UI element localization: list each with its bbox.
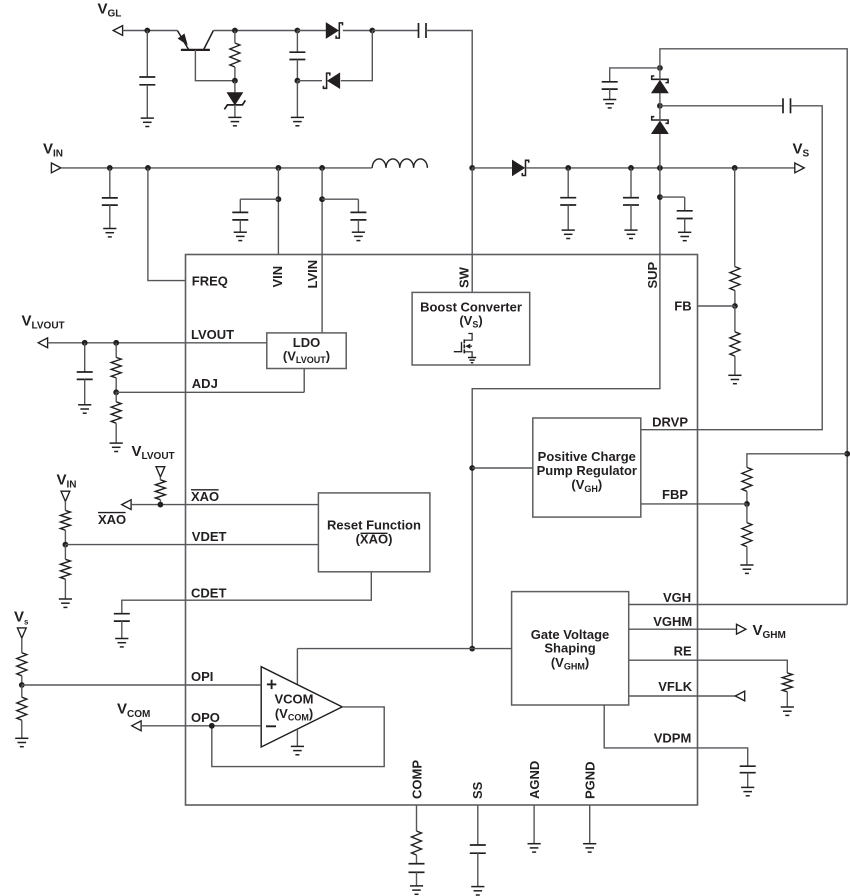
block Reset Function <box>318 493 430 572</box>
wire AGND pin <box>533 805 535 844</box>
label PGND pin <box>582 761 597 799</box>
transistor M1 in boost block <box>454 334 476 363</box>
capacitor C2 pump <box>289 31 305 81</box>
wire SUP pin <box>659 168 661 255</box>
ground C1 <box>141 118 154 126</box>
label FBP pin <box>662 487 688 502</box>
wire FBP pin <box>641 503 747 505</box>
svg-text:OPI: OPI <box>191 669 213 684</box>
schottky diode D6 charge pump upper <box>652 76 668 106</box>
ground C2 <box>291 117 304 125</box>
junction C12 <box>82 340 88 346</box>
svg-text:SS: SS <box>470 781 485 799</box>
svg-text:XAO: XAO <box>98 512 126 527</box>
wire SW node to D4 <box>472 167 512 169</box>
wire VFLK <box>629 695 736 697</box>
node VIN supply arrow <box>61 491 70 501</box>
junction FB divider top <box>732 165 738 171</box>
svg-text:ADJ: ADJ <box>192 376 218 391</box>
wire PGND pin <box>589 805 591 844</box>
wire RE <box>629 660 788 673</box>
label Vs divider <box>14 609 29 627</box>
junction R1 top <box>232 28 238 34</box>
node VLVOUT supply arrow <box>156 467 165 477</box>
svg-text:VDET: VDET <box>192 529 227 544</box>
label VCOM node <box>117 701 150 720</box>
resistor R12 OPI lower <box>17 685 27 738</box>
label VGHM pin <box>653 614 692 629</box>
label FREQ pin <box>192 273 228 288</box>
svg-text:OPO: OPO <box>191 710 220 725</box>
schottky diode D5 charge pump lower <box>652 117 668 168</box>
resistor R14 COMP <box>412 831 422 864</box>
wire VGL rail <box>123 30 178 32</box>
ground C10 <box>603 100 616 108</box>
junction C8 <box>628 165 634 171</box>
svg-text:(VS): (VS) <box>459 313 482 330</box>
resistor R5 FBP lower <box>742 504 752 565</box>
capacitor C6 LVIN bypass <box>350 199 366 232</box>
svg-text:SW: SW <box>456 266 471 288</box>
wire to charge pump block <box>472 467 533 469</box>
label FB pin <box>674 299 691 314</box>
ground R7 <box>110 443 123 451</box>
label VLVOUT <box>22 312 65 331</box>
wire CDET <box>122 572 371 614</box>
resistor R1 <box>230 31 240 81</box>
junction VIN pin <box>276 165 282 171</box>
wire VGL rail right of Q1 <box>213 30 297 32</box>
junction SUP node <box>657 165 663 171</box>
wire SUP bypass branch <box>660 196 685 198</box>
label VFLK pin <box>658 679 693 694</box>
node XAO output arrow <box>122 500 131 510</box>
wire SUP internal <box>472 255 660 649</box>
ground C13 <box>115 639 128 647</box>
label ADJ pin <box>192 376 218 391</box>
junction supply to VCOM opamp <box>469 646 475 652</box>
capacitor C16 SS <box>470 845 486 887</box>
wire VGHM <box>629 628 736 630</box>
wire SS pin <box>477 805 479 845</box>
wire VGH rail top <box>660 49 847 605</box>
label VLVOUT pullup <box>132 443 175 462</box>
label Gate Voltage Shaping <box>531 627 610 672</box>
ground AGND <box>528 844 541 852</box>
capacitor C8 VS <box>623 168 639 230</box>
capacitor C15 COMP <box>409 864 425 886</box>
ground R3 <box>728 375 741 383</box>
svg-text:Pump Regulator: Pump Regulator <box>537 463 637 478</box>
wire LVIN bypass branch <box>322 198 358 200</box>
wire VGL rail to D3 <box>297 30 326 32</box>
node VCOM output arrow <box>132 721 141 731</box>
svg-text:Positive Charge: Positive Charge <box>538 449 636 464</box>
label VDET pin <box>192 529 227 544</box>
junction C4 <box>107 165 113 171</box>
block Positive Charge Pump Regulator <box>533 418 641 517</box>
wire D3 to node <box>343 30 373 32</box>
label CDET pin <box>191 586 226 601</box>
ground R5 <box>740 565 753 573</box>
wire SW pin <box>471 168 473 293</box>
svg-text:SUP: SUP <box>645 261 660 288</box>
resistor R4 FBP upper <box>742 467 752 504</box>
wire C11 to DRVP <box>698 106 823 430</box>
svg-text:VIN: VIN <box>270 266 285 288</box>
svg-text:VGH: VGH <box>663 590 691 605</box>
junction FREQ branch <box>145 165 151 171</box>
junction C2 top <box>295 28 301 34</box>
ground D1 <box>228 117 241 125</box>
label VGHM node <box>753 622 786 641</box>
ground C7 <box>562 230 575 238</box>
wire opamp ground stub <box>296 729 298 746</box>
label SW pin <box>456 266 471 288</box>
svg-text:Shaping: Shaping <box>544 641 595 656</box>
wire FBP divider top <box>747 454 847 468</box>
node Vs supply arrow <box>17 628 26 638</box>
capacitor C12 LVOUT <box>77 343 93 405</box>
svg-text:LVIN: LVIN <box>305 260 320 289</box>
wire DRVP internal <box>641 429 698 431</box>
wire C2 to ground <box>296 81 298 118</box>
ground R9 <box>59 599 72 607</box>
schottky diode D2 <box>323 73 339 88</box>
label VIN divider <box>57 472 77 491</box>
schottky diode D3 <box>326 23 342 38</box>
resistor R9 VDET lower <box>60 545 70 599</box>
wire OPI <box>22 684 261 686</box>
label XAO pin <box>191 489 219 504</box>
wire XAO <box>131 504 318 506</box>
wire OPO <box>141 725 261 727</box>
node VFLK input arrow <box>735 691 744 701</box>
node VS output arrow <box>795 163 804 173</box>
schottky diode D4 boost rectifier <box>512 160 528 175</box>
ground C9 <box>678 232 691 240</box>
wire VDPM <box>604 705 748 767</box>
transistor Q1 PNP <box>177 31 235 81</box>
resistor R7 ADJ lower <box>111 392 121 443</box>
wire ADJ <box>116 369 304 393</box>
resistor R10 XAO pullup <box>155 477 165 505</box>
label Reset Function <box>327 518 421 547</box>
ground C16 <box>471 887 484 895</box>
wire to FREQ pin <box>148 168 186 281</box>
ground R12 <box>15 738 28 746</box>
svg-text:VDPM: VDPM <box>654 730 692 745</box>
junction D3/C3/D2 <box>369 28 375 34</box>
junction FBP <box>744 501 750 507</box>
wire VGH <box>629 604 848 606</box>
resistor R8 VDET upper <box>60 501 70 544</box>
resistor R2 FB upper <box>730 267 740 306</box>
node VGHM output arrow <box>737 624 746 634</box>
wire FB pin <box>698 305 735 307</box>
capacitor C4 input <box>102 168 118 229</box>
label Boost Converter <box>420 299 522 329</box>
node VGL output arrow <box>113 26 122 36</box>
ground C8 <box>624 230 637 238</box>
block Gate Voltage Shaping <box>512 592 629 705</box>
junction C7 <box>565 165 571 171</box>
junction R1/D1/base <box>232 78 238 84</box>
ground opamp <box>291 746 304 754</box>
label VGH pin <box>663 590 691 605</box>
capacitor C10 VGH reservoir <box>602 82 618 100</box>
svg-text:FBP: FBP <box>662 487 688 502</box>
svg-text:XAO: XAO <box>191 489 219 504</box>
resistor R11 OPI upper <box>17 638 27 685</box>
ground PGND <box>583 844 596 852</box>
svg-text:VFLK: VFLK <box>658 679 693 694</box>
svg-text:AGND: AGND <box>527 761 542 799</box>
block LDO <box>267 333 346 369</box>
label VS <box>793 141 810 160</box>
wire D5 to node <box>659 106 661 121</box>
wire C11 branch <box>660 105 783 107</box>
wire node to C3 <box>372 30 418 32</box>
capacitor C11 flying DRVP <box>783 98 791 113</box>
capacitor C5 VIN bypass <box>232 199 248 232</box>
wire LVOUT <box>48 342 267 344</box>
ground C4 <box>103 229 116 237</box>
ground R13 <box>781 707 794 715</box>
junction D5/D6/C11 <box>657 103 663 109</box>
junction ADJ <box>113 389 119 395</box>
op-amp U2 VCOM buffer <box>261 667 342 747</box>
label VGL <box>98 1 122 20</box>
junction SW/SUP to charge pump <box>469 465 475 471</box>
label COMP pin <box>410 760 425 799</box>
label AGND pin <box>527 761 542 799</box>
label VCOM opamp <box>275 692 314 723</box>
wire D6 top <box>659 68 661 80</box>
label SUP pin <box>645 261 660 288</box>
label RE pin <box>674 643 692 658</box>
junction VDET <box>63 542 69 548</box>
junction C2/D2 <box>295 78 301 84</box>
label VIN <box>43 141 63 160</box>
wire C3 to SW <box>426 31 472 168</box>
label OPO pin <box>191 710 220 725</box>
resistor R13 RE <box>782 673 792 707</box>
ground C14 <box>741 787 754 795</box>
capacitor C7 VS <box>560 168 576 230</box>
label OPI pin <box>191 669 213 684</box>
svg-text:Reset Function: Reset Function <box>327 518 421 533</box>
svg-text:RE: RE <box>674 643 692 658</box>
svg-text:DRVP: DRVP <box>652 415 688 430</box>
svg-text:LDO: LDO <box>293 335 320 350</box>
ground C6 <box>352 232 365 240</box>
label LVIN pin <box>305 260 320 289</box>
label LVOUT pin <box>191 327 234 342</box>
wire D2 right and up <box>341 31 373 81</box>
wire C10 branch <box>610 68 660 82</box>
wire D2 left <box>297 80 322 82</box>
IC U1 outline <box>186 255 698 806</box>
svg-text:FB: FB <box>674 299 691 314</box>
zener diode D1 <box>224 81 245 118</box>
junction R6 top <box>113 340 119 346</box>
wire to VCOM opamp top <box>297 649 472 685</box>
label LDO <box>283 335 330 365</box>
junction OPI <box>19 682 25 688</box>
svg-text:VGHM: VGHM <box>653 614 692 629</box>
junction D6/C10 <box>657 65 663 71</box>
label SS pin <box>470 781 485 799</box>
ground C12 <box>78 405 91 413</box>
capacitor C1 VGL filter <box>139 31 155 119</box>
svg-text:PGND: PGND <box>582 761 597 799</box>
svg-text:CDET: CDET <box>191 586 226 601</box>
ground C15 <box>410 886 423 894</box>
svg-text:LVOUT: LVOUT <box>191 327 234 342</box>
label VIN pin <box>270 266 285 288</box>
junction FB <box>732 303 738 309</box>
wire VIN bypass branch <box>240 198 278 200</box>
label DRVP pin <box>652 415 688 430</box>
capacitor C3 flying SW-VGL <box>419 23 427 38</box>
junction LVIN bypass <box>319 196 325 202</box>
wire COMP pin <box>416 805 418 831</box>
capacitor C14 VDPM <box>740 766 756 787</box>
node VLVOUT output arrow <box>38 338 47 348</box>
resistor R3 FB lower <box>730 306 740 375</box>
svg-text:COMP: COMP <box>410 760 425 799</box>
resistor R6 ADJ upper <box>111 343 121 393</box>
wire opamp output feedback <box>212 707 384 767</box>
junction XAO pullup <box>158 502 164 508</box>
svg-text:VCOM: VCOM <box>275 692 314 707</box>
node VIN input arrow <box>51 163 60 173</box>
capacitor C9 SUP bypass <box>677 197 693 232</box>
junction LVIN pin <box>319 165 325 171</box>
junction OPO feedback <box>209 723 215 729</box>
label Positive Charge Pump Regulator <box>537 449 637 494</box>
wire FB divider <box>734 168 736 267</box>
junction VGL-C1 <box>144 28 150 34</box>
svg-text:FREQ: FREQ <box>192 273 228 288</box>
wire VS rail <box>526 167 796 169</box>
wire VIN pin <box>277 168 279 255</box>
wire VIN rail <box>61 167 372 169</box>
label VDPM pin <box>654 730 692 745</box>
block Boost Converter <box>412 292 530 365</box>
ground C5 <box>234 232 247 240</box>
inductor L1 <box>372 159 427 168</box>
wire LVIN pin <box>321 168 323 333</box>
wire to gate voltage shaping <box>472 648 511 650</box>
junction SW node <box>469 165 475 171</box>
junction FBP top <box>844 451 850 457</box>
capacitor C13 CDET <box>114 614 130 639</box>
wire VDET <box>65 544 318 546</box>
junction VIN bypass <box>276 196 282 202</box>
label XAO node <box>98 512 126 527</box>
junction SUP bypass <box>657 194 663 200</box>
